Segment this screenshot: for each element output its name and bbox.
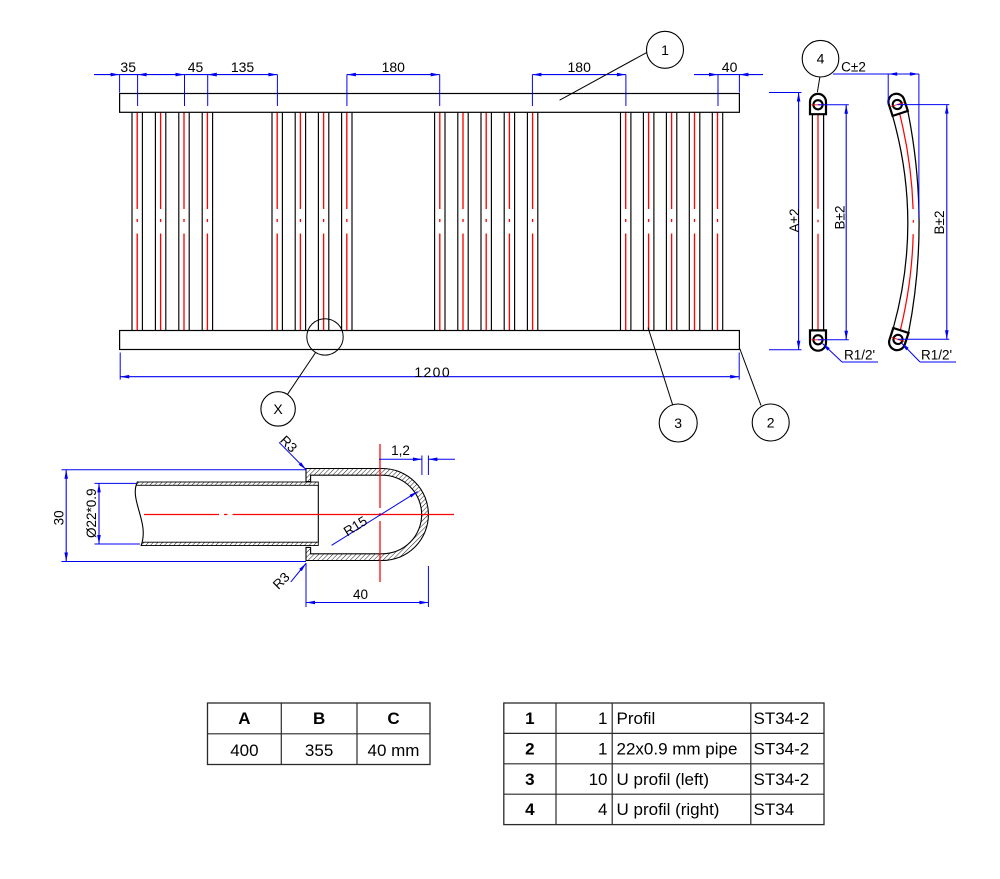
tube T14 walls [620, 113, 622, 331]
svg-text:ST34: ST34 [754, 800, 795, 819]
tube T8 red centerline [346, 106, 348, 335]
tube T13 walls [526, 113, 528, 331]
tube T10 walls [457, 113, 459, 331]
tube T1 walls [131, 113, 133, 331]
svg-text:A: A [238, 709, 250, 728]
straight profile body walls [811, 114, 813, 330]
dim 1200 line [120, 376, 739, 378]
svg-text:180: 180 [568, 59, 592, 75]
straight profile top fitting R1/2 [810, 94, 826, 114]
dim Ø22*0.9 line [98, 483, 100, 544]
tube T11 walls [480, 113, 482, 331]
svg-text:ST34-2: ST34-2 [754, 739, 810, 758]
detail X: red vertical centerline (arc center) [379, 444, 381, 582]
svg-text:1: 1 [661, 42, 669, 58]
tube T5 walls [271, 113, 273, 331]
tube T18 walls [711, 113, 713, 331]
straight profile bottom fitting R1/2 [810, 330, 826, 350]
detail X: U-profile cap (hatched ring) [306, 469, 428, 561]
callout circle X [261, 392, 295, 426]
svg-text:180: 180 [382, 59, 406, 75]
svg-text:R1/2': R1/2' [921, 348, 952, 363]
table ABC (left) [208, 703, 431, 765]
bottom rail (profil) [120, 331, 740, 350]
tube T7 red centerline [323, 106, 325, 335]
detail X: pipe break (left end) [126, 481, 143, 547]
callout circle 4 [802, 40, 839, 77]
svg-text:4: 4 [525, 800, 535, 819]
svg-text:C±2: C±2 [841, 59, 866, 74]
svg-text:X: X [273, 401, 283, 417]
tube T15 red centerline [648, 106, 650, 335]
svg-text:B±2: B±2 [832, 206, 847, 230]
svg-text:B: B [313, 709, 325, 728]
leader R3 (bottom) [291, 564, 306, 582]
svg-text:45: 45 [188, 59, 204, 75]
tube T14 red centerline [625, 106, 627, 335]
svg-text:ST34-2: ST34-2 [754, 770, 810, 789]
curved profile inner wall [893, 116, 908, 328]
svg-text:Ø22*0.9: Ø22*0.9 [84, 488, 99, 538]
svg-text:40: 40 [353, 587, 368, 602]
detail X: pipe wall hatched bands [133, 482, 318, 485]
dim 1200 extension lines [119, 353, 121, 380]
tube T17 red centerline [694, 106, 696, 335]
tube T7 walls [317, 113, 319, 331]
dim B±2 (curved) line [946, 105, 948, 340]
dim 40 (detail) extension lines [305, 563, 307, 607]
dim B±2 (straight) line [845, 105, 847, 340]
curved profile red centerline [897, 105, 913, 340]
tube T11 red centerline [485, 106, 487, 335]
svg-text:1,2: 1,2 [391, 443, 410, 458]
svg-text:355: 355 [305, 741, 333, 760]
dim A±2 extension lines [769, 92, 802, 94]
leader to callout 1 [560, 52, 648, 100]
dim 1,2 extension lines [421, 456, 423, 476]
leader R1/2 (straight profile) [823, 344, 843, 363]
tube T17 walls [688, 113, 690, 331]
svg-text:30: 30 [52, 510, 67, 525]
tube T4 walls [201, 113, 203, 331]
tube T3 walls [178, 113, 180, 331]
detail X: red horizontal centerline [144, 514, 454, 516]
top rail (profil, item 1) [120, 94, 740, 113]
tube T9 red centerline [439, 106, 441, 335]
leader R3 (top) [279, 442, 306, 469]
dim A±2 line [798, 93, 800, 350]
tube T9 walls [434, 113, 436, 331]
svg-text:40: 40 [722, 59, 738, 75]
dim 30 extension lines [62, 469, 307, 471]
svg-text:A±2: A±2 [787, 209, 802, 233]
tube T5 red centerline [276, 106, 278, 335]
curved profile bottom fitting R1/2 [887, 328, 908, 352]
dim Ø22*0.9 extension lines [95, 482, 137, 484]
leader from detail circle to X balloon [287, 353, 316, 396]
dim C±2 extension lines [887, 74, 889, 105]
svg-text:R1/2': R1/2' [844, 348, 875, 363]
tube T18 red centerline [717, 106, 719, 335]
svg-text:400: 400 [230, 741, 258, 760]
leader R15 [332, 492, 418, 546]
detail X: pipe end edge [317, 485, 319, 542]
straight profile red centerline [817, 105, 819, 340]
svg-text:1: 1 [598, 739, 607, 758]
tube T8 walls [341, 113, 343, 331]
callout circle 2 [752, 404, 789, 441]
dim 135 arrows [208, 73, 217, 77]
dim line 180 (first) [347, 74, 440, 76]
dim 40 (detail) line [306, 602, 428, 604]
leader to callout 3 [648, 328, 673, 405]
tube T16 red centerline [671, 106, 673, 335]
svg-text:22x0.9 mm pipe: 22x0.9 mm pipe [617, 739, 738, 758]
tube T6 red centerline [299, 106, 301, 335]
tube T12 red centerline [508, 106, 510, 335]
dim 40 line/arrows [694, 74, 763, 76]
tube T12 walls [503, 113, 505, 331]
svg-text:1: 1 [525, 709, 534, 728]
svg-text:135: 135 [231, 59, 255, 75]
tube T2 red centerline [160, 106, 162, 335]
svg-text:3: 3 [525, 770, 534, 789]
svg-text:1200: 1200 [414, 364, 451, 380]
dimension chain line (35/45/135) [94, 74, 277, 76]
svg-text:10: 10 [589, 770, 608, 789]
dim B±2 (straight) extension lines [818, 104, 849, 106]
dim line 180 (second) [532, 74, 626, 76]
detail circle X on bottom rail [307, 319, 343, 355]
leader to callout 2 [740, 349, 761, 406]
curved profile outer wall [908, 111, 919, 333]
leader to callout 4 [817, 77, 819, 92]
tube T10 red centerline [462, 106, 464, 335]
callout circle 3 [659, 404, 697, 442]
svg-text:C: C [387, 709, 399, 728]
tube T1 red centerline [136, 106, 138, 335]
tube T16 walls [665, 113, 667, 331]
svg-text:4: 4 [817, 51, 825, 67]
tube T6 walls [294, 113, 296, 331]
svg-text:Profil: Profil [617, 709, 656, 728]
red cross ticks at straight profile holes [811, 104, 825, 106]
callout circle 1 [647, 31, 684, 68]
tube T15 walls [642, 113, 644, 331]
svg-text:U profil (left): U profil (left) [617, 770, 710, 789]
tube T4 red centerline [206, 106, 208, 335]
tube T3 red centerline [183, 106, 185, 335]
parts table (right) [504, 703, 824, 825]
svg-text:B±2: B±2 [932, 211, 947, 235]
tube T2 walls [154, 113, 156, 331]
tube T13 red centerline [532, 106, 534, 335]
svg-text:U profil (right): U profil (right) [617, 800, 720, 819]
leader R1/2 (curved profile) [902, 343, 921, 362]
svg-text:2: 2 [525, 739, 534, 758]
extension lines of top dimensions [119, 75, 121, 93]
svg-text:3: 3 [674, 415, 682, 431]
dim C±2 line [833, 73, 919, 75]
dim 1,2 line and arrows [379, 458, 422, 460]
svg-text:4: 4 [598, 800, 607, 819]
svg-text:35: 35 [120, 59, 136, 75]
dim B±2 (curved) extension lines [897, 104, 949, 106]
svg-text:ST34-2: ST34-2 [754, 709, 810, 728]
svg-text:40 mm: 40 mm [368, 741, 420, 760]
dim 35 arrows [111, 73, 120, 77]
dim 45 arrows [176, 73, 185, 77]
svg-text:2: 2 [767, 415, 775, 431]
curved profile top fitting R1/2 [886, 92, 907, 116]
svg-text:1: 1 [598, 709, 607, 728]
dim 30 line [65, 470, 67, 562]
